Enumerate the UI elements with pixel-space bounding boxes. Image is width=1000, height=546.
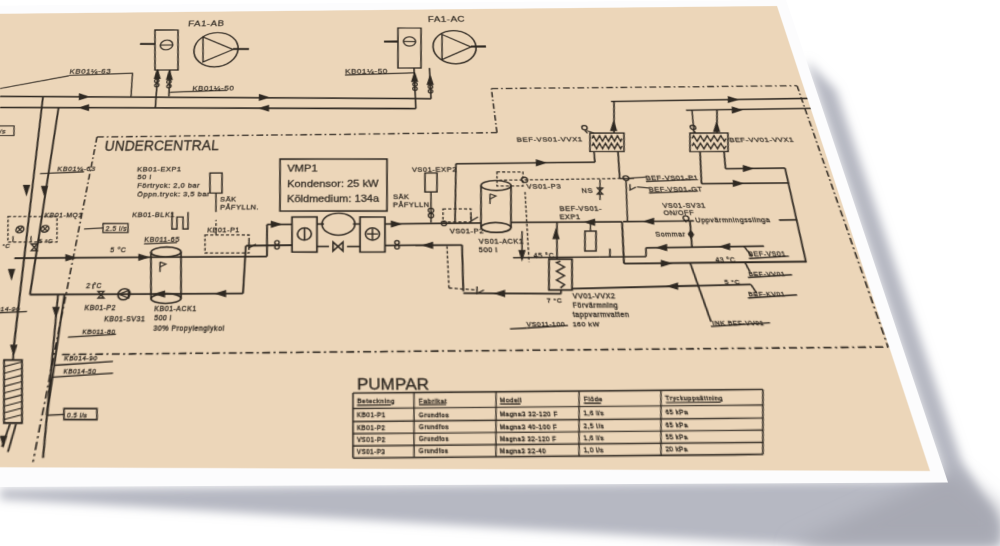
chiller condenser box [360,217,386,252]
dashed vertical tank right [521,192,534,262]
svg-text:Modell: Modell [500,396,523,403]
tank KB01-ACK1 [145,252,157,299]
svg-text:65 kPa: 65 kPa [665,421,689,429]
zone border undercentral dash-dot [97,133,497,137]
line SAK to pipe [215,206,216,212]
svg-text:NS: NS [581,188,593,195]
svg-text:KB01-EXP1: KB01-EXP1 [137,167,182,174]
svg-text:KB01-P2: KB01-P2 [357,424,386,432]
svg-text:5 °C: 5 °C [724,279,742,287]
svg-text:FA1-AB: FA1-AB [188,19,225,28]
chiller rails [317,223,324,225]
fan FA1-AB duct stubs [140,42,155,45]
svg-text:VS01-P2: VS01-P2 [450,229,485,236]
svg-text:tappvarmvatten: tappvarmvatten [572,312,630,320]
KB return line lower [30,294,243,295]
svg-text:50 l: 50 l [137,175,152,182]
svg-text:Förvärmning: Förvärmning [572,302,619,310]
shadow dark wedge bottom right [788,470,1000,546]
svg-text:7 °C: 7 °C [546,297,563,305]
box flow 0.5 l/s [62,408,98,419]
wire FA1-AC drops [414,68,416,109]
line 5C cold water [571,284,752,288]
svg-text:Grundfos: Grundfos [419,447,449,455]
wire sommar drop [686,221,696,247]
svg-text:160 kW: 160 kW [572,321,600,329]
svg-text:30% Propylenglykol: 30% Propylenglykol [153,326,225,334]
valve chiller expansion [333,242,338,251]
svg-text:UNDERCENTRAL: UNDERCENTRAL [104,137,220,153]
svg-text:BEF-VS01-: BEF-VS01- [559,206,602,213]
svg-text:KB01-SV31: KB01-SV31 [104,316,146,324]
svg-text:Magna3 32-120 F: Magna3 32-120 F [499,435,557,443]
hx connections [11,345,16,360]
VVX2 bottom connection [560,290,561,294]
pipe KB return main [0,105,416,112]
svg-text:Flöde: Flöde [583,396,603,403]
svg-text:43 °C: 43 °C [715,258,737,265]
svg-text:KB01-P2: KB01-P2 [84,305,117,313]
svg-text:SÄK: SÄK [220,196,237,204]
svg-text:VS01-SV31: VS01-SV31 [662,203,707,210]
svg-text:5 l/s: 5 l/s [0,129,7,135]
svg-text:VS01-P3: VS01-P3 [526,184,561,191]
chiller left ports [267,223,292,225]
svg-text:VMP1: VMP1 [287,163,318,174]
stub BEF-VS01 [744,246,752,256]
fan unit FA1-AB filter box [149,30,183,71]
VVX2 top connection [552,222,562,259]
svg-text:Uppvärmningsslinga: Uppvärmningsslinga [695,218,772,225]
svg-text:BEF-VS01-VVX1: BEF-VS01-VVX1 [516,136,583,144]
svg-text:Grundfos: Grundfos [419,423,449,431]
svg-text:KB014-90: KB014-90 [64,355,98,362]
svg-text:Grundfos: Grundfos [419,411,450,418]
KB supply to chiller [14,256,267,258]
pipe KB supply main [0,93,431,102]
svg-text:5 °C: 5 °C [38,239,54,246]
svg-text:Tryckuppsättning: Tryckuppsättning [665,395,724,402]
svg-text:BEF-VV01-VVX1: BEF-VV01-VVX1 [729,138,795,145]
svg-text:EXP1: EXP1 [559,215,581,222]
VS return to chiller [385,244,462,247]
box flow 2.5 l/s [102,223,130,232]
wire right header down [778,168,813,262]
line 45C from tank [513,256,600,259]
sensor BEF-VS01-GT [629,184,637,190]
stub BEF-VV01 [745,262,750,271]
svg-text:65 kPa: 65 kPa [665,409,690,416]
riser KB return left [20,107,67,294]
line sommar BEF-VS01 [646,246,765,248]
table columns [352,393,354,458]
svg-text:VS01-P3: VS01-P3 [357,448,386,456]
svg-text:PÅFYLLN.: PÅFYLLN. [393,202,433,210]
svg-text:Magna3 32-120 F: Magna3 32-120 F [499,410,558,418]
svg-text:1,0 l/s: 1,0 l/s [583,446,604,454]
fan FA1-AB circle [192,32,239,67]
pump VS01-P3 dashed line [499,178,620,180]
svg-text:Köldmedium: 134a: Köldmedium: 134a [287,193,380,205]
chiller VMP1 info box [278,158,389,211]
hx right connections top [711,110,723,133]
svg-text:2 °C: 2 °C [86,283,103,291]
wire FA1-AB drops [153,70,161,108]
hx left bottom connections [593,152,596,163]
pump table frame [353,389,764,394]
hx right bottom connections [694,152,708,184]
wire INK BEF-VV01 [690,262,711,321]
svg-text:2.5 l/s: 2.5 l/s [105,226,128,233]
svg-text:°C: °C [1,243,11,250]
fan FA1-AC duct stubs [384,40,398,43]
svg-text:0.5 l/s: 0.5 l/s [67,411,88,418]
dashed bypass VS01-P2 [449,288,477,290]
chiller evaporator box [291,217,318,252]
tank VS01-ACK1 [477,186,485,228]
hx left connections top [608,101,620,133]
svg-text:1,6 l/s: 1,6 l/s [583,410,605,417]
node BEF-VS01-P1 [623,176,629,181]
fan FA1-AC circle [432,30,478,64]
hx VV01-VVX2 [545,259,576,290]
svg-text:Kondensor: 25 kW: Kondensor: 25 kW [287,178,380,189]
svg-text:500 l: 500 l [479,248,499,255]
svg-text:KB01-P1: KB01-P1 [357,412,386,419]
svg-text:FA1-AC: FA1-AC [428,15,466,24]
svg-text:2,5 l/s: 2,5 l/s [583,422,605,430]
valve KB return [98,291,104,294]
hx district heating bottom left [0,360,34,423]
rail BEF supply top [611,97,882,101]
svg-text:Öppn.tryck: 3,5 bar: Öppn.tryck: 3,5 bar [137,191,211,199]
svg-text:VS01-ACK1: VS01-ACK1 [479,239,524,246]
main VS line right of tank [511,221,622,224]
svg-text:1,6 l/s: 1,6 l/s [583,434,604,442]
label small box left edge [0,126,16,136]
chiller compressor ellipse [322,213,355,235]
riser KB supply left [0,96,64,345]
line 43C [624,262,807,264]
svg-text:KB01-BLK1: KB01-BLK1 [132,213,175,220]
pump VS01-P2 dashed [442,209,472,222]
svg-text:Sommar: Sommar [655,232,687,239]
pump KB01-P2 circle [117,289,130,300]
fan unit FA1-AC filter box [396,28,423,68]
svg-text:KB01-P1: KB01-P1 [207,227,240,234]
svg-text:Beteckning: Beteckning [357,398,395,405]
svg-text:Magna3 40-100 F: Magna3 40-100 F [500,423,559,431]
svg-text:ON/OFF: ON/OFF [663,211,696,218]
svg-text:500 l: 500 l [154,315,173,323]
riser stub lines bottom left [29,295,72,458]
svg-text:SÄK: SÄK [393,193,410,201]
svg-text:20 kPa: 20 kPa [665,445,689,453]
VS supply line chiller to tank [385,223,481,224]
svg-text:VV01-VVX2: VV01-VVX2 [572,293,616,301]
svg-text:Grundfos: Grundfos [419,435,450,443]
expansion vessel KB01-EXP1 symbol [208,173,224,193]
svg-text:Fabrikat: Fabrikat [419,397,448,404]
rail BEF return top [686,107,885,110]
svg-text:Förtryck: 2,0 bar: Förtryck: 2,0 bar [137,183,201,190]
svg-text:55 kPa: 55 kPa [665,433,689,441]
schematic drawing on beige sheet [0,6,930,471]
svg-text:5 °C: 5 °C [110,248,127,255]
KB return corner [243,246,246,294]
svg-text:Magna3 32-40: Magna3 32-40 [499,447,547,455]
svg-text:KB01-ACK1: KB01-ACK1 [154,306,197,314]
svg-text:PÅFYLLN.: PÅFYLLN. [220,204,259,212]
svg-text:VS01-P2: VS01-P2 [357,436,386,444]
wire node down [620,181,634,222]
stub BEF-KV01 [751,284,757,293]
